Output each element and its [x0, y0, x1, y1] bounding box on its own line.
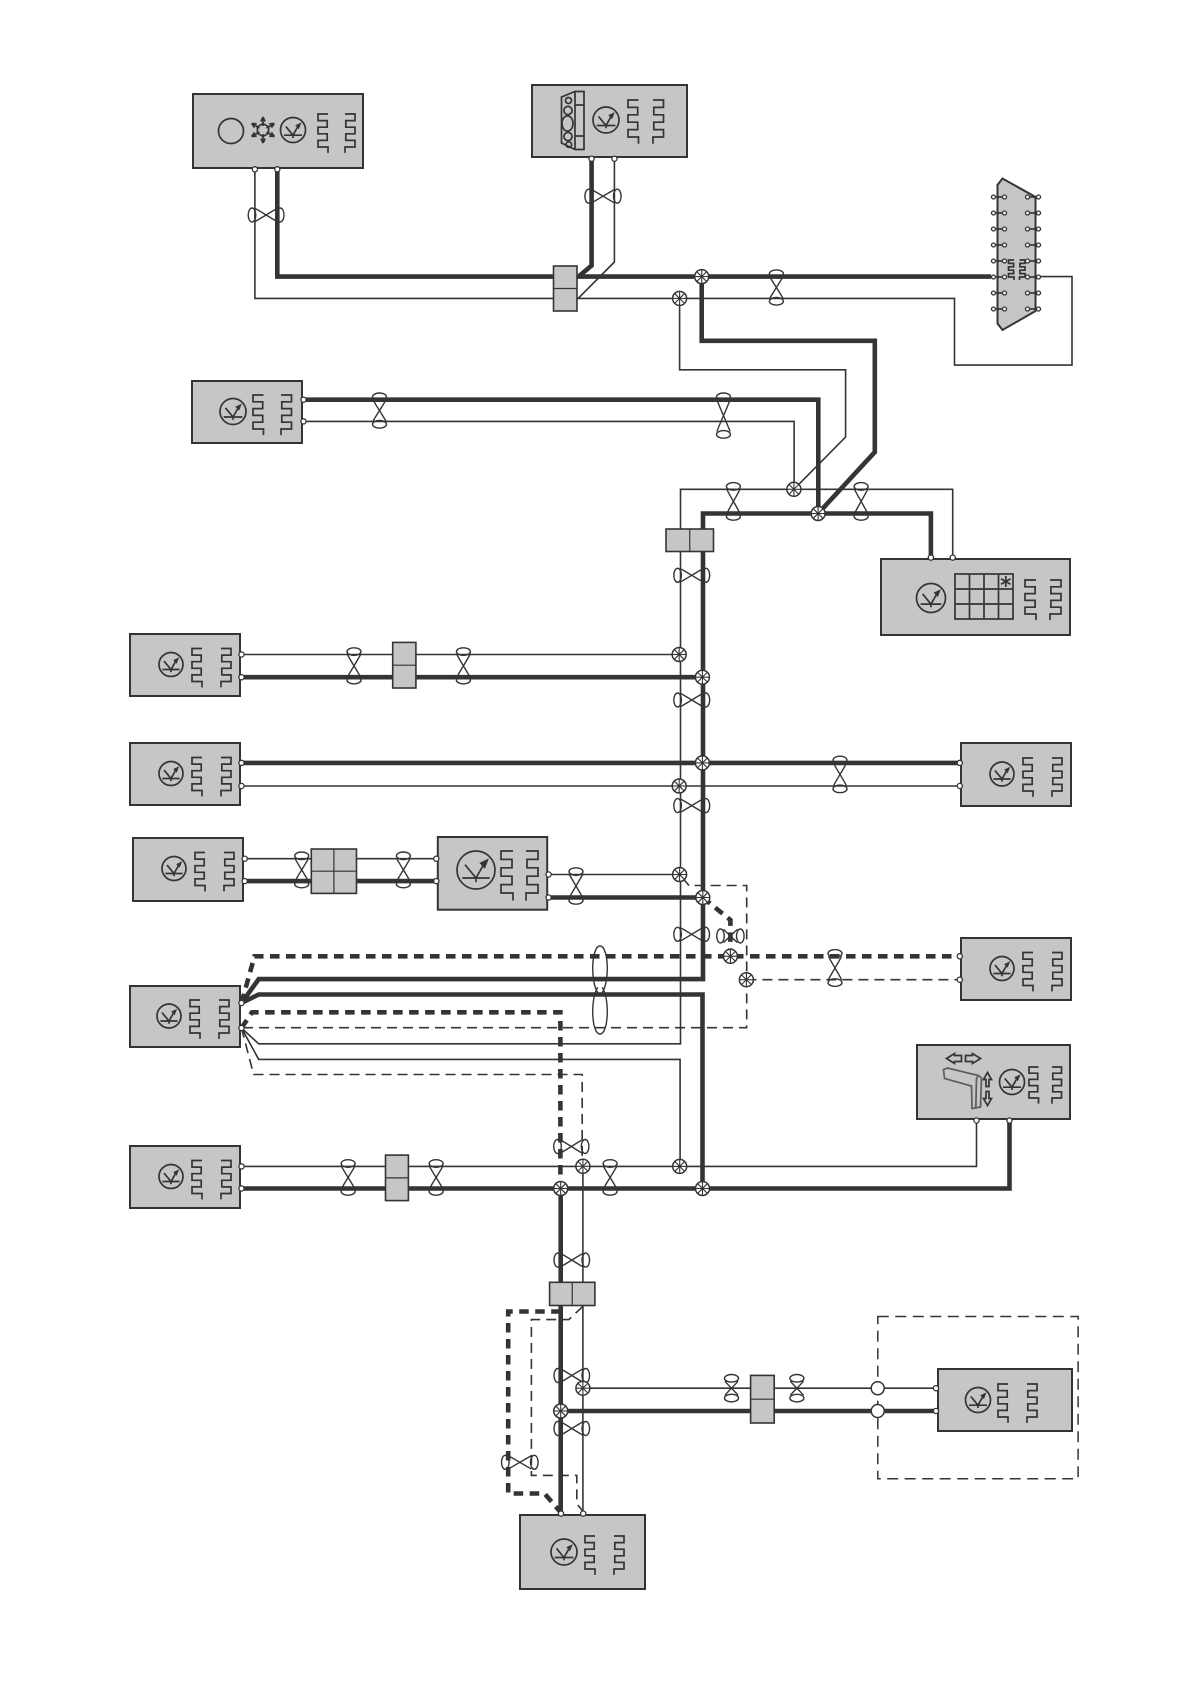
module B13 [130, 1146, 240, 1208]
inline connector X3 on B5 wires [393, 642, 416, 688]
twisted pair on left vertical buses 3 [674, 799, 710, 813]
twisted pair below J18 [554, 1422, 590, 1436]
twisted pair on left vertical buses 2 [674, 693, 710, 707]
twisted pair on left vertical buses [674, 568, 710, 582]
twisted pair on mid pair near B4 [854, 483, 868, 521]
twisted pair on B5 wires [347, 648, 361, 684]
junction J11 [723, 949, 737, 963]
twisted pair on B3 wires [373, 393, 387, 428]
twisted pair on B13 wires 2 [429, 1160, 443, 1196]
wire dashed thick bus from B10 to B11 [242, 956, 960, 1003]
inline connector X2 on top buses [554, 266, 578, 311]
wire thick from J4 to B4 [818, 514, 931, 558]
dashed enclosure around B14 [878, 1317, 1078, 1479]
connector X1 bulkhead [992, 179, 1041, 331]
inline connector X7 on bottom verticals [550, 1282, 595, 1305]
wire thin from B5 to junction J5 [242, 654, 679, 656]
module B10 [130, 986, 240, 1047]
wire dashed thin loop to B15 [531, 1306, 583, 1511]
wire thin from B2 joining bus [578, 158, 614, 299]
wire dashed thin from B10 down to junction J13 [242, 1028, 583, 1166]
junction J9 [673, 868, 687, 882]
inline connector X5 on vertical buses [666, 529, 714, 552]
wire thin from B6 to B7 [242, 785, 959, 787]
module B8 [133, 838, 243, 901]
module B15 [520, 1515, 645, 1589]
twisted pair on dashed verticals [554, 1140, 589, 1154]
twisted pair on left vertical buses 4 [674, 927, 710, 941]
wire thin from J3 to B4 [794, 489, 953, 557]
wire thin from junction J2 to junction J3 [680, 298, 846, 489]
module B1 interior light unit [193, 94, 363, 168]
twisted pair on dashed drop [717, 929, 744, 943]
bulkhead circle on thick wire [871, 1405, 884, 1418]
wire thin from B1 looping under connector X1 [255, 169, 1072, 366]
bulkhead circle on thin wire [871, 1382, 884, 1395]
junction J18 [554, 1404, 568, 1418]
wire thin bus from J3 down left side to B10 [242, 489, 794, 1044]
wire thick from junction J1 to junction J4 [702, 277, 875, 514]
module B2 headlamp unit [532, 85, 687, 157]
junction J15 [554, 1182, 568, 1196]
wire thin from junction J13 down to B15 [582, 1166, 584, 1513]
twisted pair on dashed wires to B11 [828, 950, 842, 987]
twisted pair on B9 wires [569, 868, 583, 904]
junction J7 [695, 756, 709, 770]
twisted pair on B8 wires 2 [396, 852, 410, 888]
twisted pair between J13 and J14 [603, 1160, 617, 1196]
wire thick bus from J4 down left side to B10 [242, 514, 819, 1004]
twisted pair on top buses [769, 270, 783, 305]
inline connector X4 on B8 wires [311, 849, 356, 893]
wire thin from B13 to B12 [242, 1121, 977, 1166]
wire thick from B13 to B12 [242, 1121, 1010, 1189]
tall twisted bundle on B10 wires [593, 946, 608, 1034]
module B4 instrument cluster [881, 559, 1070, 635]
module B12 mirror adjuster [917, 1045, 1070, 1119]
twisted pair on B1 wires [248, 208, 284, 222]
wire thick from B3 to junction J4 [303, 400, 818, 514]
twisted pair on B6-B7 wires [833, 756, 847, 793]
module B14 [938, 1369, 1072, 1431]
junction J12 [739, 973, 753, 987]
wire thin from B8 to B9 [245, 858, 436, 860]
module B5 [130, 634, 240, 696]
inline connector X8 on B14 wires [751, 1375, 775, 1423]
wire dashed thin from junction J12 to B11 [746, 979, 959, 981]
module B9 [438, 837, 547, 910]
twisted pair on B3 wires near J3 [717, 393, 731, 438]
junction J17 [576, 1381, 590, 1395]
wire thick from B10 down to junction J16 [242, 995, 703, 1189]
twist on thin wire to B14 [725, 1375, 739, 1402]
twisted pair on B2 wires [585, 189, 621, 203]
wire dashed thick from B10 down to junction J15 [242, 1012, 561, 1188]
twisted pair on B5 wires 2 [456, 648, 470, 684]
junction J8 [672, 779, 686, 793]
junction J3 [787, 482, 801, 496]
component pin terminals [239, 156, 1012, 1516]
junction J10 [696, 891, 710, 905]
wire thin from B10 down to junction J14 [242, 1028, 681, 1166]
wire thick from B9 to junction J10 [549, 895, 703, 900]
twisted pair on B8 wires [295, 852, 309, 888]
junction J13 [576, 1159, 590, 1173]
junction J6 [695, 670, 709, 684]
wire thin from B9 to junction J9 [549, 874, 680, 876]
wire thin from junction J17 to B14 [583, 1387, 934, 1389]
twisted pair on bottom verticals [554, 1253, 590, 1267]
wire thick from junction J18 to B14 [561, 1409, 935, 1414]
module B6 [130, 743, 240, 805]
junction J14 [673, 1159, 687, 1173]
twist on thin wire to B14 2 [790, 1375, 804, 1402]
wire thick bus from B1 to connector X1 [277, 169, 991, 277]
junction J5 [672, 648, 686, 662]
junction J2 [673, 291, 687, 305]
junction J1 [695, 270, 709, 284]
wire dashed thin from B10 up to junction J9 [243, 875, 747, 1028]
wire thick from junction J15 down to B15 [558, 1189, 563, 1514]
wire thick from B5 to junction J6 [242, 675, 702, 680]
inline connector X6 on B13 wires [386, 1155, 409, 1201]
twisted pair on dashed loop [502, 1455, 539, 1469]
twisted pair on B13 wires [341, 1160, 355, 1196]
wire dashed thick from junction J10 to J11 [703, 898, 731, 957]
wire thick from B8 to B9 [245, 879, 436, 884]
module B3 [192, 381, 302, 443]
module B11 [961, 938, 1071, 1000]
twisted pair above J17 [554, 1369, 590, 1383]
junction J4 [811, 507, 825, 521]
wire thick from B2 joining bus [578, 158, 592, 277]
wire thick from B6 to B7 [242, 761, 959, 766]
module B7 [961, 743, 1071, 806]
junction J16 [696, 1182, 710, 1196]
wire thin from B3 to junction J3 [303, 421, 794, 489]
wire dashed thick loop to B15 [508, 1312, 561, 1512]
twisted pair on mid pair [726, 483, 740, 521]
